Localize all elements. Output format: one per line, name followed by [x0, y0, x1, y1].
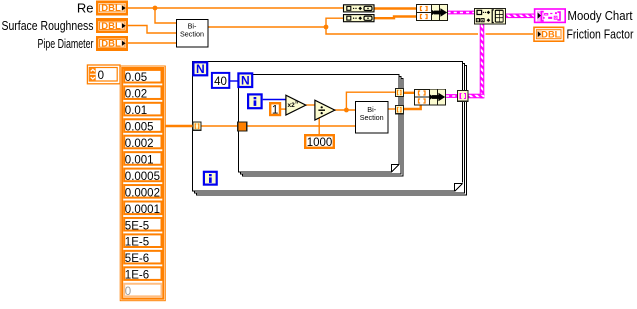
wire Bi-Section U1 output — [208, 26, 326, 28]
outer loop count terminal N — [193, 62, 207, 76]
wire Pipe Diameter to Bi-Section U1 — [128, 42, 176, 44]
wire build array 1 to bundle — [374, 7, 416, 9]
outer for loop frame — [193, 62, 467, 196]
wire build array 2 to bundle — [374, 17, 416, 19]
svg-text:5E-6: 5E-6 — [125, 253, 149, 265]
svg-text:Moody Chart: Moody Chart — [568, 8, 633, 23]
svg-text:Pipe Diameter: Pipe Diameter — [38, 36, 94, 51]
svg-text:0.05: 0.05 — [125, 72, 147, 84]
array constant shell — [120, 66, 165, 301]
svg-text:5E-5: 5E-5 — [125, 220, 149, 232]
constant 40 — [212, 73, 229, 88]
inner for loop frame — [239, 75, 404, 177]
svg-text:n: n — [295, 100, 298, 106]
subVI Bi-Section U1 — [177, 20, 209, 48]
wire branch to Friction Factor — [326, 27, 478, 34]
svg-text:0.02: 0.02 — [125, 89, 147, 101]
build array 1 — [344, 5, 375, 12]
wire loop output riser (array of clusters) — [480, 24, 485, 98]
wire bundle 2 to tunnel (cluster) — [446, 94, 458, 98]
wire Re to build array 1 — [128, 7, 344, 9]
wire divide to Bi-Section U2 — [335, 109, 356, 111]
wire junction divide out — [344, 108, 349, 113]
constant 1 — [270, 103, 280, 116]
wire branch to tunnel T1 — [346, 92, 395, 110]
svg-text:40: 40 — [214, 76, 227, 88]
array index element — [87, 65, 120, 84]
svg-text:1: 1 — [272, 105, 278, 117]
wire x2n to divide — [306, 104, 315, 106]
svg-text:DBL: DBL — [101, 39, 121, 49]
array element 0.002 — [124, 136, 161, 150]
svg-text:1E-6: 1E-6 — [125, 270, 149, 282]
bundle 2 — [415, 90, 446, 106]
tunnel T2 inner loop right — [395, 106, 403, 114]
svg-text:0.01: 0.01 — [125, 105, 147, 117]
bundle 1 — [416, 5, 448, 21]
svg-text:0.002: 0.002 — [125, 138, 154, 150]
array element 0.0005 — [124, 169, 161, 183]
terminal Re DBL — [96, 1, 128, 16]
wire junction Re — [153, 6, 158, 11]
array element 1E-6 — [124, 267, 161, 281]
indicator Moody Chart — [535, 9, 566, 22]
tunnel outer loop left — [193, 122, 201, 130]
wire Bi-Section U2 out to tunnel T2 — [388, 108, 395, 110]
svg-text:N: N — [196, 62, 205, 76]
build array 2 — [344, 15, 375, 22]
build cluster array — [475, 9, 506, 25]
wire tunnel T1 to bundle 2 — [404, 92, 414, 94]
tunnel T1 inner loop right — [395, 88, 403, 96]
array element 1E-5 — [124, 234, 161, 248]
inner loop count terminal N — [238, 73, 252, 87]
array element 0.005 — [124, 119, 161, 133]
wire tunnel to riser (array of clusters) — [468, 94, 484, 99]
indicator Friction Factor DBL — [534, 27, 564, 41]
svg-text:Friction Factor: Friction Factor — [567, 27, 635, 42]
tunnel outer loop right (cluster) — [457, 90, 468, 101]
svg-text:1000: 1000 — [307, 137, 333, 149]
wire i to x2n — [263, 99, 286, 101]
array element dimmed 0 — [124, 284, 161, 298]
wire array constant to loop tunnel — [165, 125, 193, 127]
array element 0.0001 — [124, 202, 161, 216]
wire branch to build array 2 — [326, 18, 344, 27]
svg-text:Re: Re — [77, 1, 94, 16]
terminal Surface Roughness DBL — [96, 18, 128, 33]
svg-text:0: 0 — [98, 70, 104, 82]
function scale by power of 2 — [286, 95, 306, 115]
array element 5E-6 — [124, 251, 161, 265]
wire tunnel to inner tunnel — [201, 125, 238, 127]
constant 1000 — [305, 135, 334, 149]
svg-text:0.005: 0.005 — [125, 122, 154, 134]
svg-text:DBL: DBL — [101, 3, 121, 13]
svg-text:x2: x2 — [288, 102, 296, 109]
outer loop iteration terminal i — [204, 172, 217, 185]
svg-text:Section: Section — [360, 113, 384, 122]
terminal Pipe Diameter DBL — [96, 36, 128, 51]
wire build cluster array to Moody Chart (array of clusters) — [506, 14, 534, 19]
svg-text:0.0001: 0.0001 — [125, 204, 160, 216]
svg-text:1E-5: 1E-5 — [125, 237, 149, 249]
svg-text:DBL: DBL — [101, 21, 121, 31]
array element 5E-5 — [124, 218, 161, 232]
svg-text:DBL: DBL — [541, 30, 560, 41]
wire tunnel T2 to bundle 2 — [404, 105, 421, 110]
svg-text:0.0005: 0.0005 — [125, 171, 160, 183]
function divide — [315, 100, 335, 120]
tunnel inner loop left (solid) — [238, 122, 247, 131]
subVI Bi-Section U2 — [356, 102, 389, 134]
array element 0.02 — [124, 86, 161, 100]
array element 0.001 — [124, 152, 161, 166]
wire bundle to build cluster array (cluster) — [448, 11, 475, 15]
svg-text:0.001: 0.001 — [125, 154, 154, 166]
svg-text:0.0002: 0.0002 — [125, 187, 160, 199]
svg-text:Surface Roughness: Surface Roughness — [2, 18, 94, 33]
svg-text:N: N — [241, 74, 250, 88]
wire inner tunnel to Bi-Section U2 — [247, 125, 356, 127]
inner loop iteration terminal i — [248, 94, 262, 108]
wire Re branch to Bi-Section U1 — [155, 8, 176, 23]
wire 1000 to divide — [318, 118, 320, 135]
wire Surface Roughness to Bi-Section U1 — [128, 26, 176, 34]
wire 40 to inner N — [230, 80, 238, 82]
wire 1 to x2n — [281, 108, 286, 110]
array element 0.0002 — [124, 185, 161, 199]
svg-text:Section: Section — [180, 29, 204, 38]
array element 0.05 — [124, 70, 161, 84]
svg-text:0: 0 — [125, 286, 131, 298]
wire junction U1 out — [324, 25, 329, 30]
array element 0.01 — [124, 103, 161, 117]
